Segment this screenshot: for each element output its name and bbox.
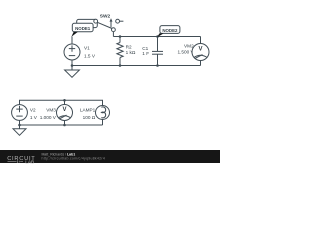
- svg-text:LAB: LAB: [25, 159, 34, 165]
- svg-text:1 V: 1 V: [30, 115, 38, 120]
- label VM2 value 1.500 V: [178, 43, 195, 54]
- svg-text:LAMP1: LAMP1: [80, 108, 96, 113]
- junction VM3 top: [63, 99, 66, 102]
- capacitor C1: [152, 37, 163, 66]
- svg-text:1 kΩ: 1 kΩ: [126, 50, 136, 55]
- wire top rail: [113, 36, 200, 38]
- svg-text:SW2: SW2: [100, 14, 111, 20]
- voltage source V1: [64, 44, 80, 60]
- wire bottom rail: [72, 65, 201, 67]
- svg-text:V2: V2: [30, 108, 36, 113]
- wire V1 bottom: [71, 60, 73, 66]
- wire top rail 2: [20, 100, 103, 105]
- wire switch to rail: [112, 32, 114, 37]
- wire lamp bottom: [102, 120, 104, 126]
- svg-text:1.5 V: 1.5 V: [84, 53, 96, 58]
- voltmeter VM2: [192, 37, 209, 66]
- label R2 value 1 kOhm: [126, 45, 136, 55]
- label LAMP1 value 100 Ohm: [80, 108, 96, 120]
- wire V2 bottom: [19, 120, 21, 125]
- logo CircuitLab: [7, 156, 35, 166]
- ground: [65, 66, 80, 78]
- label VM3 value 1.000 V: [40, 108, 57, 120]
- junction R2 top: [119, 35, 122, 38]
- label V2 value 1 V: [30, 108, 38, 120]
- switch SW2: [94, 18, 124, 31]
- junction V2/ground: [18, 124, 21, 127]
- svg-text:NODE1: NODE1: [75, 26, 91, 31]
- svg-text:VM3: VM3: [46, 108, 56, 113]
- resistor R2: [117, 37, 123, 66]
- footer bar: [0, 150, 220, 163]
- svg-text:V: V: [198, 46, 202, 52]
- svg-text:1 F: 1 F: [142, 51, 149, 56]
- svg-text:V1: V1: [84, 46, 90, 51]
- voltage source V2: [12, 105, 28, 121]
- label C1 value 1 F: [142, 46, 149, 56]
- svg-text:VM2: VM2: [184, 43, 194, 48]
- node NODE2 flag: [157, 26, 180, 38]
- junction R2 bottom: [119, 64, 122, 67]
- wire bottom rail 2: [20, 124, 103, 126]
- svg-text:V: V: [62, 107, 66, 113]
- svg-text:100 Ω: 100 Ω: [83, 115, 96, 120]
- junction C1 top: [156, 35, 159, 38]
- junction V1/ground: [71, 64, 74, 67]
- svg-text:1.000 V: 1.000 V: [40, 115, 57, 120]
- svg-text:NODE2: NODE2: [162, 28, 178, 33]
- voltmeter VM3: [57, 100, 73, 125]
- wire V1 top to node: [71, 37, 73, 45]
- junction C1 bottom: [156, 64, 159, 67]
- node NODE1 flag (stacked): [71, 19, 97, 36]
- lamp LAMP1: [96, 106, 110, 120]
- svg-text:http://circuitlab.com/c/4yq9u8: http://circuitlab.com/c/4yq9u8k42r4: [42, 156, 106, 160]
- ground 2: [13, 125, 26, 135]
- label V1 value 1.5 V: [84, 46, 96, 59]
- junction VM3 bottom: [63, 124, 66, 127]
